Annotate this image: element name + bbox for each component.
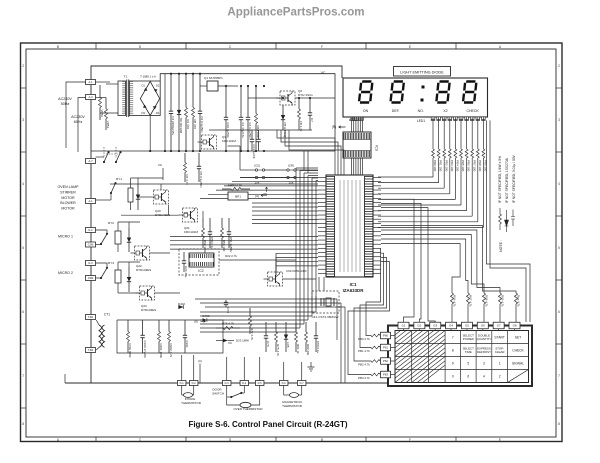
svg-text:R50 100k: R50 100k <box>203 240 207 253</box>
svg-text:RY2: RY2 <box>108 221 114 225</box>
svg-text:DEFROST: DEFROST <box>477 350 491 354</box>
svg-text:NO.: NO. <box>418 109 424 113</box>
svg-text:4: 4 <box>22 182 24 186</box>
svg-text:(R): (R) <box>332 125 337 129</box>
svg-text:(CR): (CR) <box>288 164 294 168</box>
ground symbol bottom <box>308 362 315 371</box>
svg-text:PR7 100: PR7 100 <box>472 160 476 172</box>
svg-text:R68 4.7k: R68 4.7k <box>484 295 488 307</box>
magnetron thermistor symbol <box>283 386 285 396</box>
svg-text:PB0 4.7k: PB0 4.7k <box>358 337 370 341</box>
svg-text:C3M: C3M <box>88 276 93 280</box>
components right of CT1 loop <box>216 327 223 329</box>
wire bundle left of IC1 upper <box>240 177 318 179</box>
border zone tick marks bottom <box>95 437 97 442</box>
display bottom pin comb left <box>350 117 363 121</box>
svg-text:F: F <box>409 438 411 442</box>
zener TD2 HZ4AQ <box>282 105 284 115</box>
wires bottom boxes up stubs <box>181 355 183 381</box>
7-segment digit 8 (fourth) <box>463 82 476 103</box>
svg-text:BLOWER: BLOWER <box>60 201 76 205</box>
svg-text:3: 3 <box>22 118 24 122</box>
svg-text:R101 100k: R101 100k <box>159 344 163 359</box>
svg-text:B: B <box>57 45 59 49</box>
wire bundle left of IC1 lower <box>170 236 318 238</box>
svg-text:CF1 CST4.36MGW: CF1 CST4.36MGW <box>312 315 339 319</box>
svg-text:A-1: A-1 <box>88 80 93 84</box>
keyboard matrix outer box <box>388 326 532 387</box>
svg-text:VC: VC <box>184 211 189 215</box>
svg-text:C2 0.1μ/50v: C2 0.1μ/50v <box>200 116 204 133</box>
micro switch contacts upper <box>103 161 105 163</box>
bus from transformer box to right <box>160 74 335 151</box>
svg-text:D-7: D-7 <box>300 382 305 385</box>
svg-text:POWER: POWER <box>463 337 474 341</box>
svg-text:C24 47μ: C24 47μ <box>184 266 188 278</box>
svg-text:E: E <box>409 45 411 49</box>
IC3 driver block <box>343 132 371 158</box>
bridge rectifier D1-D4 <box>140 81 159 115</box>
inner border frame <box>26 49 556 437</box>
svg-text:FH60 2.7k: FH60 2.7k <box>228 183 242 187</box>
wires display right side to keyboard right edge <box>487 120 531 322</box>
svg-text:IC3: IC3 <box>375 145 379 151</box>
IC1 internal verticals <box>339 180 341 272</box>
svg-text:8: 8 <box>22 422 24 426</box>
svg-text:R102 4.7k: R102 4.7k <box>169 344 173 358</box>
svg-text:VC: VC <box>158 163 163 167</box>
svg-text:C100 47μ/6b: C100 47μ/6b <box>143 341 147 359</box>
svg-text:CHECK: CHECK <box>466 109 479 113</box>
LED display outline box <box>343 78 488 117</box>
micro switch 2 <box>96 263 108 267</box>
svg-text:D23 1/8W: D23 1/8W <box>236 339 249 343</box>
svg-text:R8 470: R8 470 <box>193 119 197 129</box>
svg-text:4: 4 <box>558 182 560 186</box>
svg-text:6: 6 <box>22 310 24 314</box>
svg-text:KRC101M: KRC101M <box>184 230 198 234</box>
svg-text:R56 100: R56 100 <box>222 240 226 252</box>
border zone tick marks right <box>556 87 562 89</box>
wires IC3 to IC1 <box>351 158 353 176</box>
left connector terminal boxes <box>86 80 96 85</box>
wire bundle left of IC1 middle <box>252 202 318 204</box>
svg-text:Figure S-6. Control Panel Circ: Figure S-6. Control Panel Circuit (R-24G… <box>188 420 347 429</box>
cap C16 <box>258 130 260 139</box>
trimmer wires <box>240 169 255 171</box>
svg-text:C6K KRW101M: C6K KRW101M <box>286 269 307 273</box>
transistor Q2 DTA/2SCs <box>248 97 280 99</box>
display colon <box>422 86 425 89</box>
svg-text:DTD143ES: DTD143ES <box>141 308 156 312</box>
svg-text:20k: 20k <box>255 181 260 185</box>
svg-text:MICRO 2: MICRO 2 <box>58 271 73 275</box>
svg-text:R77 4.7k: R77 4.7k <box>250 328 254 341</box>
svg-text:A-7: A-7 <box>88 159 93 163</box>
svg-text:7: 7 <box>452 335 454 339</box>
transistor Q3 KRC101M <box>202 135 217 149</box>
svg-text:D-2: D-2 <box>192 382 197 385</box>
rail y=184 <box>110 183 318 185</box>
svg-text:OVEN LAMP: OVEN LAMP <box>58 185 80 189</box>
7-segment digit 8 (third) <box>436 82 449 103</box>
wires cluster to IC1 <box>202 211 204 218</box>
svg-text:DTA/ 2SCs: DTA/ 2SCs <box>298 93 313 97</box>
svg-text:PR8 100: PR8 100 <box>478 160 482 172</box>
keyboard G1-G8 terminal boxes <box>398 322 409 329</box>
svg-text:G4: G4 <box>449 324 453 328</box>
svg-text:C51 1μ/50v: C51 1μ/50v <box>229 237 233 253</box>
wire bundle IC1 pins to keyboard P rows <box>366 249 381 336</box>
svg-text:P63: P63 <box>383 373 388 377</box>
svg-text:C1 47μ/16v: C1 47μ/16v <box>241 123 245 139</box>
svg-text:R1 470: R1 470 <box>186 119 190 129</box>
power section bottom rail <box>91 150 335 152</box>
svg-text:C5 0.1μ/50v: C5 0.1μ/50v <box>199 172 203 189</box>
svg-text:P62: P62 <box>383 359 388 363</box>
svg-text:T-B1: T-B1 <box>88 315 94 319</box>
resistor FH60 2.7k and BP1 <box>222 188 231 190</box>
svg-text:D-6: D-6 <box>282 382 287 385</box>
keyboard P row terminal boxes <box>381 332 391 339</box>
svg-text:4: 4 <box>483 374 485 378</box>
svg-text:P60: P60 <box>383 334 388 338</box>
display bottom pin comb right <box>431 117 435 121</box>
svg-text:C7: C7 <box>310 118 314 122</box>
transistor Q24 KRW101M <box>268 272 283 286</box>
keyboard row resistors PB0-PB3 4.7k <box>371 334 381 337</box>
svg-text:PR9 100: PR9 100 <box>484 160 488 172</box>
svg-text:PR0 100: PR0 100 <box>433 160 437 172</box>
components cluster mid-left <box>202 218 204 228</box>
IC1 IZA633DR microcontroller block <box>326 175 373 277</box>
svg-text:B: B <box>321 438 323 442</box>
vertical wire bundle left-center <box>295 168 297 332</box>
svg-text:AppliancePartsPros.com: AppliancePartsPros.com <box>227 6 364 19</box>
svg-text:AC230V: AC230V <box>58 97 72 101</box>
svg-text:PR6 100: PR6 100 <box>467 160 471 172</box>
keyboard G line <box>388 325 532 327</box>
wires relay coils to bus <box>96 199 112 201</box>
svg-text:MOTOR: MOTOR <box>61 196 75 200</box>
note legend symbol diode <box>505 210 509 232</box>
AC input wires <box>66 82 86 148</box>
svg-text:LED1: LED1 <box>417 119 425 123</box>
svg-text:PR2 100: PR2 100 <box>444 160 448 172</box>
note legend symbol resistor <box>499 208 502 230</box>
power supply filter components <box>170 74 172 111</box>
svg-text:PR1 100: PR1 100 <box>439 160 443 172</box>
svg-text:T-B2: T-B2 <box>88 348 94 352</box>
VC rail mid <box>209 129 312 131</box>
svg-text:C50 0.1μ: C50 0.1μ <box>210 237 214 250</box>
wires CF1 to IC1 <box>318 277 320 291</box>
svg-text:2: 2 <box>499 374 501 378</box>
keyboard diagonal cell bottom-right <box>508 370 529 383</box>
svg-text:D1: D1 <box>141 84 145 88</box>
svg-text:D3: D3 <box>141 111 145 115</box>
svg-text:VC: VC <box>321 71 326 75</box>
cap C13 <box>251 130 253 139</box>
svg-text:LD5: LD5 <box>286 342 290 348</box>
svg-text:VC: VC <box>228 341 232 345</box>
svg-text:START: START <box>494 335 505 339</box>
varistor VR52 <box>96 81 111 83</box>
svg-text:C70: C70 <box>266 341 270 347</box>
svg-text:D-4: D-4 <box>242 382 247 385</box>
svg-text:A-3: A-3 <box>88 95 93 99</box>
svg-text:PB2 4.7k: PB2 4.7k <box>358 363 370 367</box>
svg-text:SET: SET <box>515 335 521 339</box>
svg-text:G6: G6 <box>481 324 485 328</box>
display segment resistors PR0-PR9 100 with staircase wires to IC1 <box>432 117 434 120</box>
svg-text:0: 0 <box>452 374 454 378</box>
IC1 pin comb columns <box>327 177 373 277</box>
transformer secondary box <box>129 81 160 116</box>
svg-text:PB3 4.7k: PB3 4.7k <box>358 376 370 380</box>
svg-text:10k: 10k <box>289 181 294 185</box>
resistor R4 4.7k <box>184 153 186 163</box>
junction dots top buses <box>170 73 172 75</box>
svg-text:F: F <box>321 45 323 49</box>
svg-text:2: 2 <box>22 64 24 68</box>
micro switch 1 <box>96 230 108 233</box>
svg-text:TIME: TIME <box>465 350 472 354</box>
svg-text:N-3: N-3 <box>88 261 93 265</box>
svg-text:R22 2.7k: R22 2.7k <box>225 254 237 258</box>
svg-text:7: 7 <box>22 374 24 378</box>
svg-text:MOTOR: MOTOR <box>61 207 75 211</box>
svg-text:D-5: D-5 <box>258 382 263 385</box>
second component row bottom <box>265 322 267 336</box>
svg-text:R66 4.7k: R66 4.7k <box>452 295 456 307</box>
outer border frame <box>21 43 563 442</box>
svg-text:C4 2200μ/35v: C4 2200μ/35v <box>171 116 175 135</box>
svg-text:IF NOT SPECIFIED, 0.01μ / 50V: IF NOT SPECIFIED, 0.01μ / 50V <box>512 154 516 203</box>
svg-text:G1: G1 <box>402 324 406 328</box>
svg-text:(C6): (C6) <box>254 164 260 168</box>
svg-text:R4 4.7k: R4 4.7k <box>185 175 189 186</box>
svg-text:(C): (C) <box>198 359 202 363</box>
svg-text:RY1: RY1 <box>116 177 122 181</box>
svg-text:C10 1μ/50v: C10 1μ/50v <box>226 123 230 139</box>
svg-text:BP1: BP1 <box>235 195 241 199</box>
svg-text:SIGNAL: SIGNAL <box>512 361 524 365</box>
components right of Q2 <box>298 98 300 109</box>
main vertical bus left <box>91 66 342 383</box>
svg-text:QUANTITY: QUANTITY <box>477 337 492 341</box>
intake thermistor symbol <box>181 386 183 396</box>
svg-text:KRC101M: KRC101M <box>222 139 236 143</box>
border zone tick marks top <box>95 43 97 49</box>
svg-text:THERMISTOR: THERMISTOR <box>282 404 303 408</box>
varistor VR51 <box>105 98 107 109</box>
svg-text:IC2: IC2 <box>198 269 203 273</box>
svg-text:NOTE :: NOTE : <box>499 240 503 252</box>
svg-text:R76 4.7k: R76 4.7k <box>222 322 235 326</box>
svg-text:1: 1 <box>499 361 501 365</box>
CT1 circuit loop box <box>117 320 223 353</box>
svg-text:VR51: VR51 <box>106 121 110 129</box>
svg-text:T1: T1 <box>124 74 128 78</box>
svg-text:G7: G7 <box>497 324 501 328</box>
svg-text:STIRRER: STIRRER <box>60 190 76 194</box>
svg-text:G3: G3 <box>433 324 437 328</box>
svg-text:C13 1μ/6b: C13 1μ/6b <box>252 145 256 159</box>
wire bridge bottom to rail <box>149 116 151 152</box>
vertical wire right of bridge <box>164 73 166 151</box>
svg-text:D4: D4 <box>156 111 160 115</box>
note legend symbol capacitor <box>511 210 515 227</box>
svg-text:G2: G2 <box>417 324 421 328</box>
svg-text:(G): (G) <box>194 320 198 324</box>
svg-text:VR52: VR52 <box>100 110 104 118</box>
svg-text:R 0E 820k: R 0E 820k <box>128 344 132 359</box>
border zone tick marks left <box>21 87 27 89</box>
transformer core <box>126 80 128 118</box>
svg-text:CHECK: CHECK <box>512 348 524 352</box>
transistor Q20 DTD143ES <box>154 190 169 204</box>
svg-text:IF NOT SPECIFIED, 1/4W ± 5%: IF NOT SPECIFIED, 1/4W ± 5% <box>498 156 502 203</box>
svg-text:R82 20k: R82 20k <box>306 344 310 356</box>
7-segment digit 8 (first) <box>359 82 372 103</box>
svg-text:CLEAR: CLEAR <box>495 350 505 354</box>
bottom terminal boxes row <box>177 381 186 386</box>
svg-text:N-2: N-2 <box>88 228 93 232</box>
transistor Q21 KRC101M <box>183 208 198 222</box>
svg-text:AC230V: AC230V <box>71 115 85 119</box>
svg-text:G8: G8 <box>513 324 517 328</box>
wire bundle IC1 pins to keyboard pull resistors <box>381 226 516 294</box>
wires below IC1 to bottom bus <box>200 302 341 304</box>
svg-text:5: 5 <box>558 246 560 250</box>
svg-text:6: 6 <box>467 374 469 378</box>
svg-text:TD/ RD12M: TD/ RD12M <box>179 117 183 133</box>
bottom-left components in loop <box>127 320 129 332</box>
svg-text:7: 7 <box>558 374 560 378</box>
svg-text:PR5 100: PR5 100 <box>461 160 465 172</box>
svg-text:DTD143ES: DTD143ES <box>155 213 170 217</box>
oven thermistor symbol <box>238 392 244 394</box>
IC2 block <box>189 253 214 267</box>
keyboard pull resistors R66-R70 4.7k <box>451 293 454 304</box>
svg-text:Q1 6A7805P1: Q1 6A7805P1 <box>204 76 223 80</box>
svg-text:R81 1k: R81 1k <box>296 344 300 354</box>
svg-text:9: 9 <box>452 361 454 365</box>
svg-text:D400: D400 <box>203 314 210 318</box>
transistor Q22 DTD143ES <box>135 246 150 260</box>
bottom horizontal bus <box>65 382 388 384</box>
keyboard grid <box>395 331 529 383</box>
svg-text:5: 5 <box>467 361 469 365</box>
svg-text:3: 3 <box>483 361 485 365</box>
svg-text:5: 5 <box>22 246 24 250</box>
svg-text:CT1: CT1 <box>104 313 110 317</box>
ceramic resonator CF1 dashed box <box>312 291 339 313</box>
svg-text:R67 4.7k: R67 4.7k <box>468 295 472 307</box>
svg-text:P61: P61 <box>383 346 388 350</box>
svg-text:IZA633DR: IZA633DR <box>343 288 365 293</box>
svg-text:2: 2 <box>558 64 560 68</box>
svg-text:DTD143ES: DTD143ES <box>136 268 151 272</box>
svg-text:50Hz: 50Hz <box>61 102 70 106</box>
svg-text:C70: C70 <box>226 308 230 314</box>
cap C24 47u/16v <box>183 252 185 261</box>
svg-text:IC1: IC1 <box>350 282 357 287</box>
svg-text:6: 6 <box>558 310 560 314</box>
svg-text:DEF.: DEF. <box>392 109 400 113</box>
relay coil and diode D8 <box>128 188 133 202</box>
filter caps after regulator <box>225 86 227 117</box>
switch link dashed <box>106 153 118 155</box>
svg-text:D-1: D-1 <box>180 382 185 385</box>
svg-text:ON: ON <box>363 109 369 113</box>
svg-text:PR4 100: PR4 100 <box>456 160 460 172</box>
svg-text:C80 0.1μ: C80 0.1μ <box>316 341 320 354</box>
svg-text:G5: G5 <box>465 324 469 328</box>
svg-text:8: 8 <box>452 348 454 352</box>
wire bundle from display to IC3 <box>351 117 353 132</box>
svg-text:C101: C101 <box>185 341 189 349</box>
svg-text:THERMISTOR: THERMISTOR <box>181 401 202 405</box>
LED display title box LIGHT EMITTING DIODE <box>394 67 451 77</box>
svg-text:R69 4.7k: R69 4.7k <box>500 295 504 307</box>
wires IC1 to G1 G2 G3 columns <box>381 199 414 322</box>
wires relay section <box>155 292 181 294</box>
extra wires into IC1 left pins <box>276 252 318 254</box>
svg-text:LIGHT EMITTING DIODE: LIGHT EMITTING DIODE <box>400 70 444 74</box>
cap C5 <box>198 153 200 166</box>
wires AC to transformer <box>106 83 118 85</box>
svg-text:60Hz: 60Hz <box>74 120 83 124</box>
svg-text:MICRO 1: MICRO 1 <box>58 235 73 239</box>
svg-text:D-3: D-3 <box>225 382 230 385</box>
svg-text:T-1088 1 ± A: T-1088 1 ± A <box>140 74 156 78</box>
svg-text:PB1 4.7k: PB1 4.7k <box>358 349 370 353</box>
7-segment digit 8 (second) <box>390 82 403 103</box>
svg-text:R75 4.7k: R75 4.7k <box>276 344 280 357</box>
svg-text:X2: X2 <box>443 109 447 113</box>
svg-text:A-1: A-1 <box>88 199 93 203</box>
svg-text:E: E <box>499 438 501 442</box>
svg-text:C4 0.1μ/50v: C4 0.1μ/50v <box>248 123 252 140</box>
svg-text:OVEN THERMISTOR: OVEN THERMISTOR <box>233 407 263 411</box>
svg-text:SWITCH: SWITCH <box>212 392 224 396</box>
svg-text:3: 3 <box>558 118 560 122</box>
IC2 dashed enclosure <box>179 249 219 275</box>
door switch symbol <box>226 386 228 398</box>
transistor Q23 DTD143ES <box>140 286 155 300</box>
svg-text:IF NOT SPECIFIED, 1SS270A: IF NOT SPECIFIED, 1SS270A <box>505 157 509 203</box>
wire bundle rising to IC region <box>277 130 335 175</box>
svg-text:C2M: C2M <box>88 243 93 247</box>
svg-text:Rpn 4.7k: Rpn 4.7k <box>516 295 520 307</box>
svg-text:PR3 100: PR3 100 <box>450 160 454 172</box>
svg-text:RY3: RY3 <box>108 261 114 265</box>
svg-text:(A): (A) <box>255 194 259 198</box>
svg-text:D2: D2 <box>156 84 160 88</box>
svg-text:8: 8 <box>558 422 560 426</box>
